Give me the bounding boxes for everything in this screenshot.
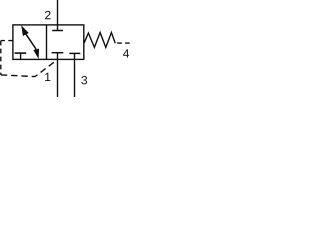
port 1 line	[57, 59, 59, 97]
pilot line dashed bottom + diagonal to port 1	[1, 60, 58, 77]
port 3 line	[74, 59, 76, 97]
background	[0, 0, 145, 97]
port 4 pilot dashes	[117, 42, 130, 44]
label 4	[123, 49, 129, 57]
label 3	[81, 76, 87, 84]
pilot line dashed vertical left	[0, 41, 2, 75]
spring	[84, 33, 115, 48]
blocked port T right (inside box bottom)	[74, 53, 76, 59]
pilot line dashed (left side and bottom)	[1, 40, 13, 42]
port 2 block T-bar	[52, 30, 63, 32]
port 2 line	[57, 0, 59, 25]
variable orifice arrow shaft	[25, 33, 36, 49]
blocked port T left (inside box bottom)	[20, 53, 22, 59]
label 2	[45, 11, 50, 19]
port 2 blocked stub	[57, 25, 59, 31]
label 1	[45, 73, 50, 81]
blocked port T middle (inside box bottom)	[57, 53, 59, 60]
valve envelope box	[13, 25, 84, 60]
position divider	[46, 25, 48, 60]
arrowhead top (up-left)	[21, 25, 29, 36]
arrowhead bottom (down-right)	[33, 49, 39, 59]
